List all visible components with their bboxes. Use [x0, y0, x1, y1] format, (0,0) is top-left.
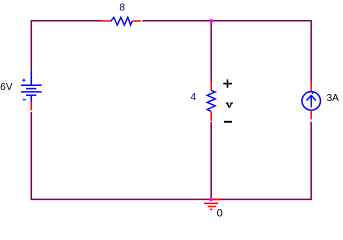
- label v (serif): [226, 103, 233, 108]
- resistor R 8 zigzag: [111, 17, 132, 25]
- junction node bottom (middle branch / bottom rail): [209, 198, 213, 202]
- svg-text:3A: 3A: [327, 93, 340, 104]
- ground bar 2: [208, 206, 216, 208]
- minus sign of v: [224, 121, 232, 123]
- wire middle branch top: [210, 21, 212, 82]
- current source I1 bottom pin (red): [310, 110, 312, 119]
- battery minus mark: [23, 99, 26, 101]
- current source I1 circle: [302, 92, 321, 111]
- svg-text:4: 4: [191, 92, 197, 103]
- battery plus mark: [22, 79, 25, 82]
- resistor R 4 bottom pin (red): [210, 112, 212, 121]
- wire bottom rail: [31, 198, 311, 200]
- junction node top (middle branch / top rail): [209, 19, 213, 23]
- voltage source V1 6V battery symbol: [21, 71, 42, 102]
- svg-text:8: 8: [119, 2, 125, 13]
- wire right branch bottom: [310, 122, 312, 200]
- resistor R 4 zigzag: [207, 91, 215, 112]
- ground symbol pin bar on rail (red): [213, 198, 221, 200]
- wire left branch bottom: [30, 112, 32, 200]
- wire top rail left segment: [31, 20, 101, 22]
- wire left branch top: [30, 20, 32, 71]
- resistor R 8 right pin (red): [132, 20, 141, 22]
- wire middle branch bottom: [210, 122, 212, 199]
- battery bottom pin (red): [30, 102, 32, 111]
- svg-text:6V: 6V: [0, 82, 13, 93]
- ground bar 3: [210, 208, 212, 210]
- wire top rail right segment: [142, 20, 311, 22]
- ground bar 1: [204, 202, 218, 204]
- current source I1 top pin (red): [310, 82, 312, 92]
- current source arrow: [307, 95, 316, 107]
- current source top tick: [312, 92, 314, 94]
- resistor R 8 left pin (red): [102, 20, 111, 22]
- wire right branch top: [310, 20, 312, 82]
- plus sign of v: [223, 79, 232, 87]
- resistor R 4 top pin (red): [210, 82, 212, 91]
- svg-text:0: 0: [217, 207, 223, 219]
